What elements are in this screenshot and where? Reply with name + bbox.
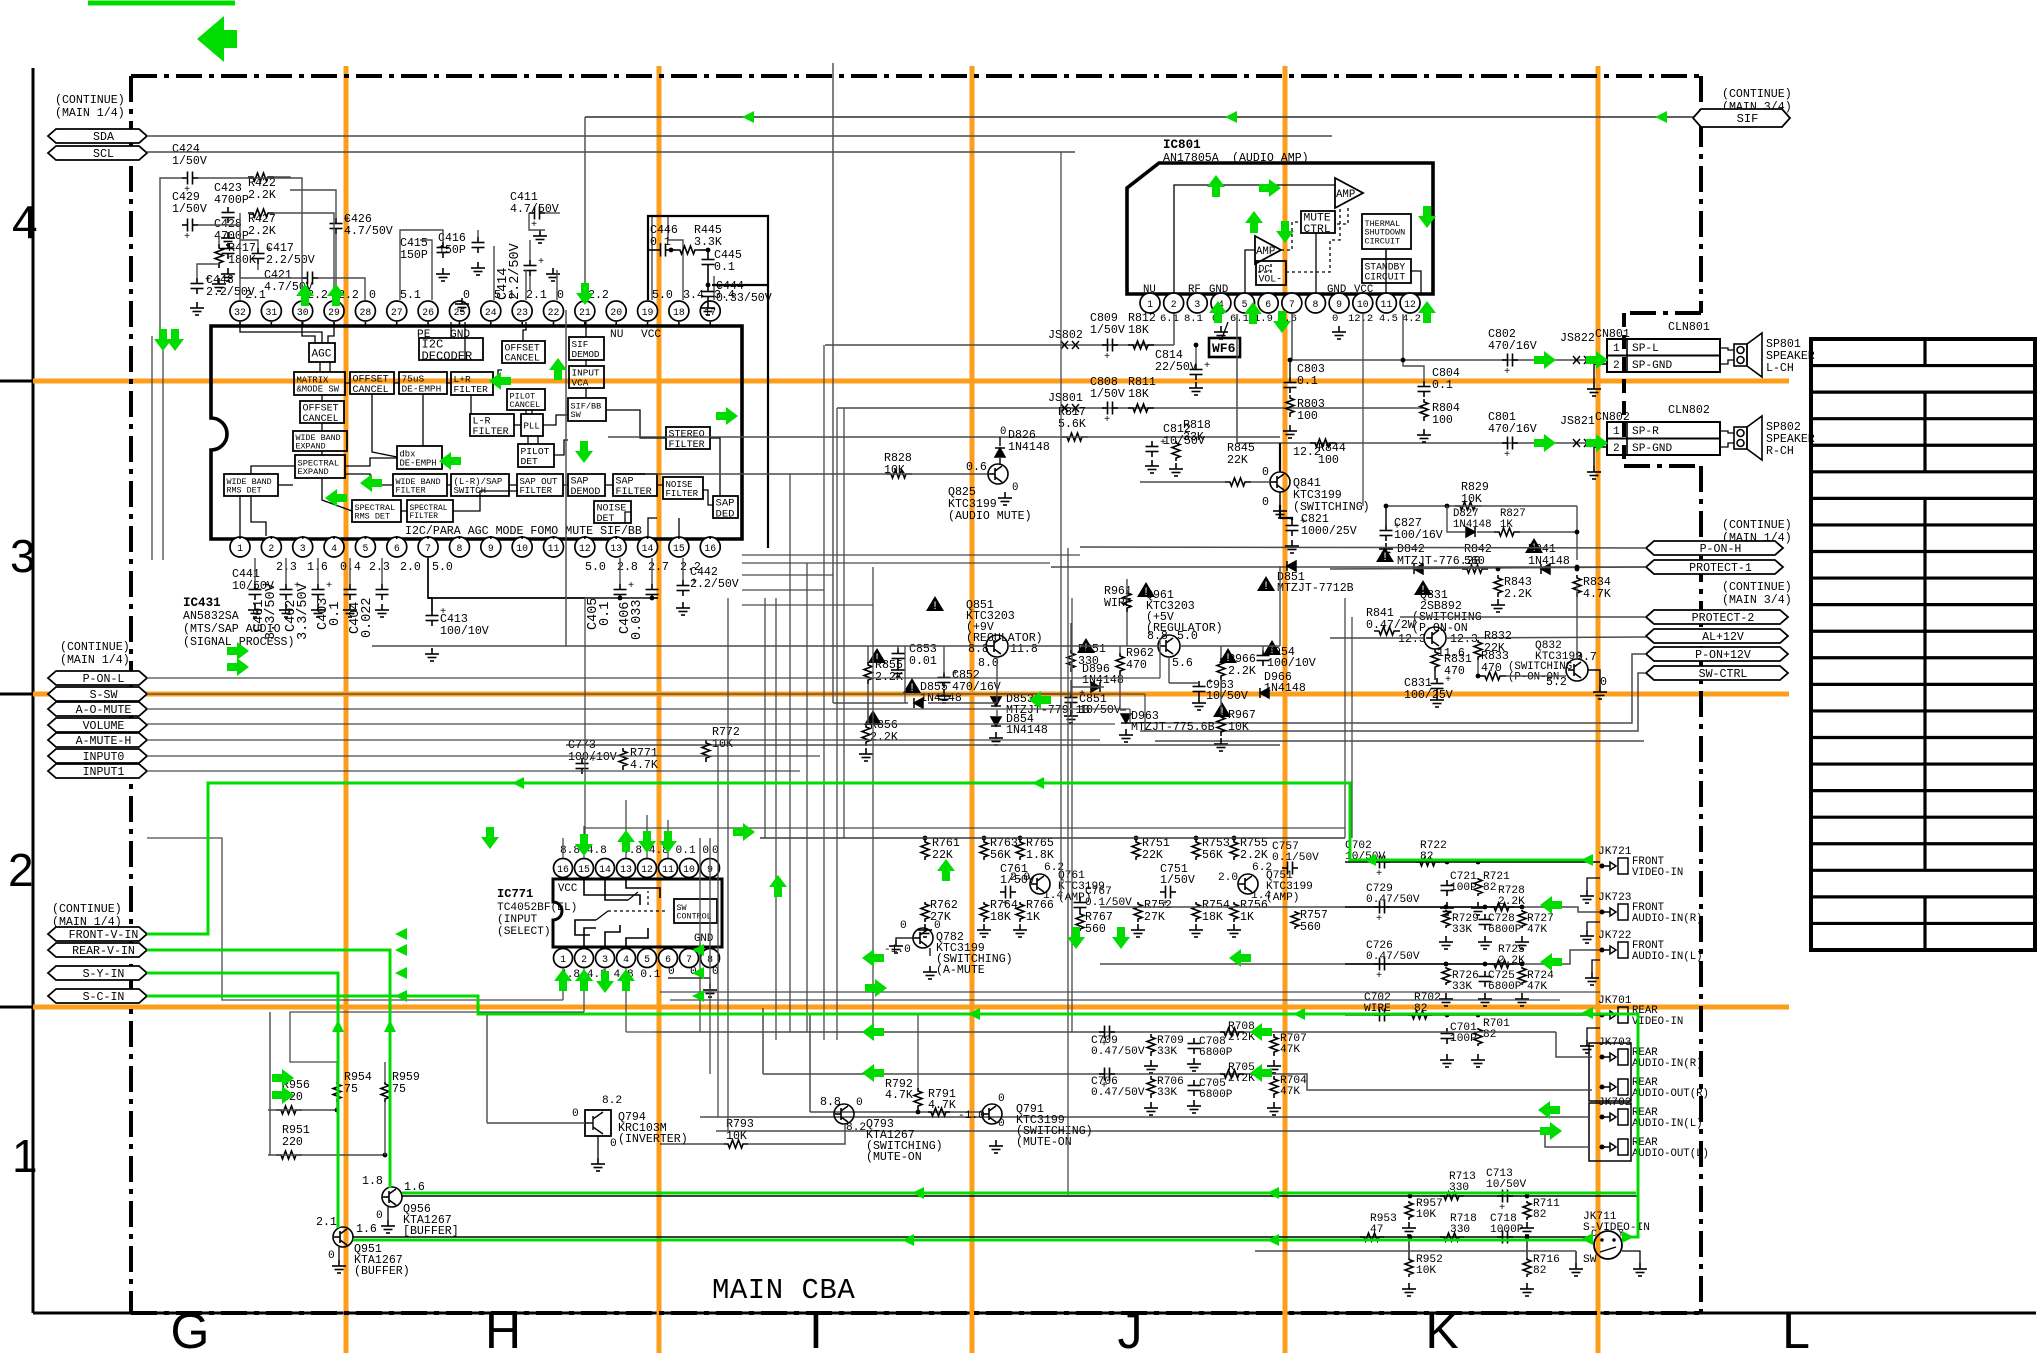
svg-text:56K: 56K (1202, 849, 1223, 862)
wire C827 stub (1385, 506, 1387, 525)
svg-text:0.33/50V: 0.33/50V (716, 292, 772, 305)
IC801 internal wires (1174, 185, 1421, 294)
transistor Q793 (834, 1104, 854, 1124)
wire C401 leads (285, 558, 287, 584)
ground C402 (311, 604, 325, 617)
green arrowhead (692, 990, 704, 1002)
svg-text:0.033: 0.033 (630, 599, 645, 640)
ground C401 (279, 604, 293, 617)
svg-text:(MAIN 3/4): (MAIN 3/4) (1722, 594, 1792, 607)
ground JK721 (1580, 890, 1594, 903)
IC431 block AGC (309, 343, 335, 362)
svg-text:2.2/50V: 2.2/50V (266, 254, 315, 267)
node P-ON-L flag (48, 671, 147, 685)
svg-text:DE-EMPH: DE-EMPH (402, 383, 442, 394)
node SIF flag (1693, 109, 1790, 127)
svg-text:2: 2 (1171, 299, 1177, 310)
green arrow (1534, 434, 1556, 452)
connector JK723 FRONT AUDIO-IN(R) (1600, 904, 1628, 920)
svg-text:220: 220 (282, 1136, 303, 1149)
svg-text:75: 75 (344, 1083, 358, 1096)
green arrow (1229, 949, 1251, 967)
svg-text:0: 0 (1332, 313, 1338, 325)
svg-text:2.2K: 2.2K (1228, 665, 1256, 678)
svg-text:+: + (628, 580, 634, 592)
ground D854 (989, 732, 1003, 745)
svg-text:8: 8 (457, 543, 463, 554)
green arrow (733, 823, 755, 841)
svg-text:PLL: PLL (524, 420, 540, 431)
svg-text:5: 5 (362, 543, 368, 554)
ground C721 (1440, 902, 1454, 915)
ground JK711 right (1633, 1263, 1647, 1276)
svg-text:FILTER: FILTER (669, 440, 705, 451)
svg-text:100: 100 (1318, 454, 1339, 467)
svg-text:&MODE SW: &MODE SW (297, 384, 340, 394)
green arrow (1245, 211, 1263, 233)
svg-text:47: 47 (1370, 1224, 1383, 1236)
green arrow (617, 830, 635, 852)
node A-MUTE-H flag (48, 733, 147, 747)
node INPUT0 flag (48, 749, 147, 763)
svg-text:6.1: 6.1 (1160, 313, 1179, 325)
green arrowhead (1267, 1234, 1279, 1246)
green arrow (360, 474, 382, 492)
wire IC771 drops (147, 800, 668, 1062)
green arrow (716, 407, 738, 425)
IC431 block SPECTRAL EXPAND (295, 455, 345, 478)
ground R804 (1417, 429, 1431, 442)
ground C444 (701, 302, 715, 315)
svg-text:MTZJT-7712B: MTZJT-7712B (1277, 582, 1354, 595)
svg-text:1.6: 1.6 (356, 1223, 377, 1236)
svg-text:12: 12 (1404, 299, 1416, 310)
green wire Q951 out (353, 1239, 1589, 1242)
svg-text:47K: 47K (1280, 1044, 1300, 1056)
green arrowhead (1267, 1187, 1279, 1199)
transistor Q851 +9V regulator (926, 596, 944, 611)
wire long vertical bundle center-left (152, 152, 1363, 1196)
svg-text:6800P: 6800P (1199, 1089, 1233, 1101)
svg-text:DET: DET (521, 456, 539, 467)
svg-text:1N4148: 1N4148 (1264, 682, 1306, 695)
svg-text:0.1: 0.1 (598, 602, 613, 626)
wire SP-L net (1292, 359, 1607, 361)
svg-text:4.2: 4.2 (1402, 313, 1421, 325)
wire pin2 riser (1173, 314, 1175, 345)
IC431 block WIDE BAND EXPAND (293, 431, 347, 451)
ground top-left 1 (221, 232, 235, 245)
svg-text:S-Y-IN: S-Y-IN (83, 968, 125, 981)
svg-text:32: 32 (234, 307, 246, 318)
wire C406 leads (651, 558, 653, 584)
svg-text:JS802: JS802 (1048, 329, 1083, 342)
green arrow (549, 358, 567, 380)
svg-text:75: 75 (392, 1083, 406, 1096)
svg-text:330: 330 (1450, 1224, 1470, 1236)
green arrow (575, 969, 593, 991)
green arrow (1207, 175, 1225, 197)
axis tick bottom x=658 (657, 1313, 660, 1341)
IC431 block 75uS DE-EMPH (399, 372, 447, 394)
board outline speaker notch left (1622, 313, 1626, 466)
green arrowhead (1655, 111, 1667, 123)
green arrow (769, 875, 787, 897)
svg-text:2.1: 2.1 (526, 289, 547, 302)
svg-text:33K: 33K (1452, 924, 1472, 936)
svg-text:0.47/50V: 0.47/50V (1091, 1046, 1145, 1058)
IC431 internal wires (240, 322, 720, 536)
wire svideo bus2 (353, 1236, 1589, 1238)
svg-text:27: 27 (391, 307, 403, 318)
IC431 block SAP DEMOD (568, 474, 605, 496)
svg-text:1: 1 (560, 954, 566, 965)
svg-text:2.1: 2.1 (316, 1216, 337, 1229)
JK702 outline (1589, 1103, 1631, 1161)
svg-text:2.3: 2.3 (369, 561, 390, 574)
svg-text:P-ON+12V: P-ON+12V (1695, 649, 1751, 662)
svg-text:IC801: IC801 (1163, 138, 1201, 152)
axis tick left y=694 (0, 693, 33, 696)
resistor R856 (864, 710, 882, 725)
svg-text:3.3/50V: 3.3/50V (264, 582, 279, 640)
ground R803 (1283, 425, 1297, 438)
svg-text:33K: 33K (1452, 981, 1472, 993)
axis tick bottom x=1597 (1596, 1313, 1599, 1341)
green arrowhead (512, 777, 524, 789)
svg-text:0: 0 (376, 1210, 383, 1222)
green arrow (862, 949, 884, 967)
svg-text:L-CH: L-CH (1766, 362, 1794, 375)
svg-text:AUDIO-OUT(L): AUDIO-OUT(L) (1632, 1148, 1709, 1160)
svg-text:+: + (1394, 521, 1400, 533)
ground R762 (918, 924, 932, 937)
svg-text:30: 30 (297, 307, 309, 318)
svg-text:22/50V: 22/50V (1155, 361, 1197, 374)
green arrowhead (692, 967, 704, 979)
wire SP-R net (1237, 442, 1607, 444)
IC431 block dbx DE-EMPH (397, 446, 442, 469)
wire R829 net (1386, 505, 1577, 507)
svg-text:MUTE: MUTE (1304, 212, 1331, 224)
svg-text:FILTER: FILTER (410, 512, 439, 521)
wire pins 12-14 bus (585, 597, 652, 599)
transistor Q761 (1030, 874, 1050, 894)
svg-text:4.7K: 4.7K (1583, 588, 1611, 601)
IC431 block SIF DEMOD (569, 337, 604, 360)
svg-text:5.2: 5.2 (1546, 676, 1567, 689)
transistor Q782 (913, 928, 933, 948)
svg-text:+: + (440, 606, 446, 618)
transistor Q841 (1270, 472, 1290, 492)
svg-text:FILTER: FILTER (666, 488, 699, 499)
svg-text:DEMOD: DEMOD (572, 349, 600, 360)
svg-text:8.2: 8.2 (602, 1095, 622, 1107)
svg-text:0.47/50V: 0.47/50V (1366, 951, 1420, 963)
ground C441 (248, 604, 262, 617)
wire pin17 riser (713, 276, 715, 300)
svg-text:AUDIO-IN(L): AUDIO-IN(L) (1632, 951, 1703, 963)
svg-text:12.3: 12.3 (1450, 633, 1478, 646)
svg-text:(CONTINUE): (CONTINUE) (1722, 581, 1792, 594)
wire R831-C831 (1434, 671, 1436, 680)
svg-text:P-ON-H: P-ON-H (1700, 543, 1742, 556)
wire pin18 riser (668, 216, 683, 300)
green arrow (596, 971, 614, 993)
node REAR-V-IN flag (48, 943, 147, 957)
green arrowhead (902, 1234, 914, 1246)
svg-text:0: 0 (668, 966, 675, 978)
IC431 block PILOT DET (518, 444, 554, 467)
node S-SW flag (48, 687, 147, 701)
svg-text:L: L (1782, 1303, 1810, 1353)
axis tick bottom x=971 (970, 1313, 973, 1341)
svg-text:0: 0 (1262, 466, 1269, 479)
svg-text:5.6: 5.6 (1172, 657, 1193, 670)
svg-text:100/10V: 100/10V (1267, 657, 1316, 670)
op-amp IC431 outline (211, 326, 742, 539)
node S-Y-IN flag (48, 966, 147, 980)
svg-text:6.1: 6.1 (1230, 313, 1249, 325)
svg-text:+: + (1300, 516, 1306, 528)
green arrow (1250, 1064, 1272, 1082)
green arrow (1418, 206, 1436, 228)
green arrow (862, 1023, 884, 1041)
wire R951 net (268, 1154, 385, 1156)
wire Q841 collector (1279, 443, 1281, 472)
green arrow (1540, 1122, 1562, 1140)
svg-text:0: 0 (369, 289, 376, 302)
svg-text:+: + (1504, 366, 1510, 378)
green arrowhead (395, 967, 407, 979)
wire C803 stub (1289, 360, 1291, 377)
board outline left edge (129, 76, 133, 1313)
svg-text:21: 21 (579, 307, 591, 318)
svg-text:EXPAND: EXPAND (298, 467, 329, 477)
ground C814 (1189, 382, 1203, 395)
axis tick left y=1007 (0, 1006, 33, 1009)
sheet left axis line (32, 68, 35, 1313)
svg-text:33K: 33K (1157, 1087, 1177, 1099)
svg-text:6800P: 6800P (1488, 924, 1522, 936)
svg-text:SP-L: SP-L (1632, 343, 1659, 355)
JK703 outline (1589, 1043, 1631, 1101)
ground C701 (1440, 1054, 1454, 1067)
wire R841 net (1330, 637, 1424, 639)
ground top-left 7 (533, 230, 547, 243)
svg-text:0.1: 0.1 (1432, 379, 1453, 392)
svg-text:1.8K: 1.8K (1026, 849, 1054, 862)
ground R856 (859, 748, 873, 761)
wire front audioR net (1100, 907, 1600, 912)
ground C705 (1187, 1100, 1201, 1113)
svg-text:VCC: VCC (641, 329, 661, 341)
ground R724 (1515, 993, 1529, 1006)
node S-C-IN flag (48, 989, 147, 1003)
svg-text:1: 1 (237, 543, 243, 554)
svg-text:0.1: 0.1 (1297, 375, 1318, 388)
green arrowhead (912, 1187, 924, 1199)
svg-text:RMS DET: RMS DET (227, 485, 262, 495)
green arrow (617, 969, 635, 991)
svg-text:AMP: AMP (1256, 246, 1275, 258)
svg-text:1K: 1K (1026, 911, 1040, 924)
green arrowhead (1032, 777, 1044, 789)
ground JK711 left (1569, 1263, 1583, 1276)
svg-text:22K: 22K (1142, 849, 1163, 862)
green arrow (439, 452, 461, 470)
connector JK703 REAR AUDIO-IN(R) (1600, 1049, 1628, 1065)
IC431 block I2C DECODER (419, 338, 483, 360)
svg-text:33K: 33K (1183, 431, 1204, 444)
board outline top edge (131, 74, 1701, 78)
green wire S-Y-IN (147, 973, 338, 1228)
svg-text:10/50V: 10/50V (1079, 704, 1121, 717)
svg-text:FILTER: FILTER (616, 487, 652, 498)
svg-text:8.8: 8.8 (820, 1096, 841, 1109)
resistor R851 (1077, 638, 1095, 653)
node A-O-MUTE flag (48, 702, 147, 716)
IC431 block SIF/BB SW (568, 398, 606, 421)
wire C442 leads (682, 558, 684, 580)
ground C812 (1145, 460, 1159, 473)
ground JK722 (1585, 972, 1599, 985)
svg-text:CANCEL: CANCEL (505, 353, 540, 364)
green arrow (1276, 221, 1294, 243)
svg-text:8.8: 8.8 (1147, 630, 1168, 643)
wire pin5 drop SP-R (1236, 314, 1238, 443)
svg-text:1/50V: 1/50V (172, 203, 207, 216)
ground R727 (1515, 936, 1529, 949)
ground top-left 6 (471, 262, 485, 275)
svg-text:23: 23 (516, 307, 528, 318)
svg-text:GND: GND (450, 329, 470, 341)
wire C441 leads (254, 558, 256, 584)
svg-text:6800P: 6800P (1199, 1047, 1233, 1059)
svg-text:2: 2 (1613, 443, 1620, 455)
axis tick bottom x=345 (344, 1313, 347, 1341)
svg-text:(INPUT: (INPUT (497, 914, 537, 926)
green arrow (1540, 896, 1562, 914)
wire x768 drop (767, 285, 769, 548)
ground R726 (1439, 993, 1453, 1006)
green arrowhead (395, 928, 407, 940)
svg-text:18K: 18K (1128, 324, 1149, 337)
svg-text:12.3: 12.3 (1398, 633, 1426, 646)
svg-text:1/50V: 1/50V (1090, 324, 1125, 337)
svg-text:!: ! (910, 682, 913, 694)
svg-text:5: 5 (644, 954, 650, 965)
svg-text:5: 5 (1242, 299, 1248, 310)
IC801 block DC VOL- (1256, 261, 1286, 285)
resistor R967 (1213, 702, 1231, 717)
ground top-left 4 (190, 302, 204, 315)
board outline right edge upper (1699, 76, 1703, 313)
transistor Q831 (1414, 580, 1432, 595)
svg-text:+: + (538, 256, 544, 268)
ground C403 (343, 604, 357, 617)
ground Q951 (332, 1260, 346, 1273)
orange grid vertical x=1598 (1596, 66, 1601, 1353)
IC431 block PILOT CANCEL (507, 389, 545, 410)
svg-text:6800P: 6800P (1488, 981, 1522, 993)
svg-text:15: 15 (673, 543, 685, 554)
green arrowhead (1581, 1007, 1593, 1019)
svg-text:FILTER: FILTER (473, 427, 509, 438)
svg-text:22: 22 (548, 307, 560, 318)
label WF6 (1209, 338, 1240, 357)
svg-text:FILTER: FILTER (520, 485, 553, 496)
svg-text:31: 31 (265, 307, 277, 318)
wire Q832 collector riser (1576, 585, 1578, 660)
svg-text:1.8: 1.8 (362, 1175, 383, 1188)
green arrow (1259, 179, 1281, 197)
svg-text:+: + (184, 231, 190, 243)
ground JK701 (1580, 1040, 1594, 1053)
svg-text:VOLUME: VOLUME (83, 720, 125, 733)
svg-text:29: 29 (328, 307, 340, 318)
green arrowhead (1622, 1231, 1634, 1243)
green wire FRONT-V-IN (147, 783, 1592, 934)
svg-text:EXPAND: EXPAND (296, 441, 326, 451)
svg-text:82: 82 (1533, 1209, 1546, 1221)
svg-text:+: + (1376, 970, 1382, 982)
IC431 block SAP FILTER (613, 474, 657, 496)
green arrow (489, 372, 511, 390)
svg-text:DE-EMPH: DE-EMPH (400, 458, 437, 468)
wire R828 net (645, 473, 988, 475)
svg-text:22K: 22K (1227, 454, 1248, 467)
svg-text:2.0: 2.0 (1010, 872, 1030, 884)
green arrow (865, 979, 887, 997)
svg-text:AN5832SA: AN5832SA (183, 610, 239, 623)
ground R752 (1131, 924, 1145, 937)
green arrow (1538, 1101, 1560, 1119)
IC431 block WIDE BAND FILTER (393, 474, 447, 496)
svg-text:16: 16 (704, 543, 716, 554)
svg-text:470: 470 (1481, 662, 1502, 675)
svg-text:CLN802: CLN802 (1668, 404, 1710, 417)
ground Q956 (381, 1220, 395, 1233)
green arrow (1418, 301, 1436, 323)
board outline right edge lower (1699, 466, 1703, 1313)
orange grid horizontal y=1007 (33, 1005, 1789, 1010)
junction bus1 a (1408, 1194, 1413, 1199)
svg-text:+: + (266, 244, 272, 256)
svg-text:11: 11 (548, 543, 560, 554)
green wire REAR-V-IN (147, 950, 390, 1188)
wire rear audio-out R net (762, 1008, 764, 1074)
IC431 block SPECTRAL RMS DET (352, 500, 401, 522)
green arrow (1273, 311, 1291, 333)
green arrow (154, 329, 172, 351)
svg-text:PROTECT-2: PROTECT-2 (1692, 612, 1755, 625)
node P-ON+12V flag (1646, 647, 1788, 661)
svg-text:(CONTINUE): (CONTINUE) (52, 903, 122, 916)
svg-text:SW: SW (1583, 1254, 1597, 1266)
green arrow (554, 969, 572, 991)
IC771 internal switches (575, 879, 674, 947)
svg-text:2: 2 (8, 844, 34, 896)
svg-text:2: 2 (268, 543, 274, 554)
node P-ON-H flag (1646, 541, 1783, 555)
svg-text:3.4: 3.4 (683, 289, 704, 302)
svg-text:4: 4 (623, 954, 629, 965)
wire R793 net (660, 1143, 724, 1145)
ground R721 (1471, 902, 1485, 915)
ground R706 (1144, 1102, 1158, 1115)
svg-text:SP-R: SP-R (1632, 426, 1659, 438)
